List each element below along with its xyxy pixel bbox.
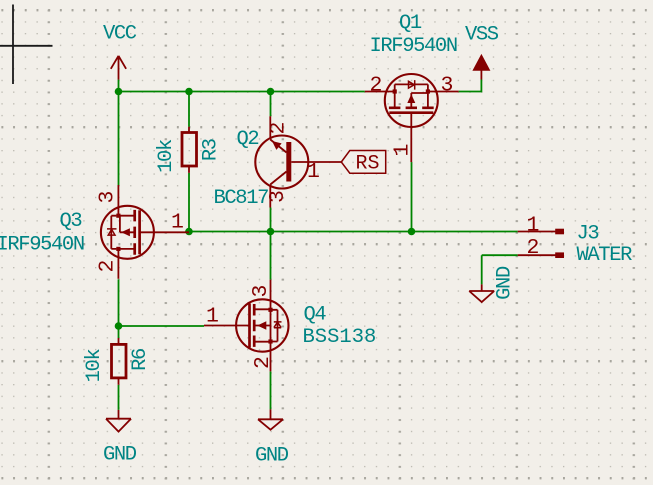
svg-text:IRF9540N: IRF9540N bbox=[0, 234, 84, 257]
svg-text:J3: J3 bbox=[577, 223, 599, 246]
transistor Q3 IRF9540N (gate right) bbox=[101, 185, 189, 279]
wire R6 bottom to GND bbox=[118, 172, 120, 174]
ground near J3 bbox=[469, 284, 494, 302]
wire R6 junction to Q4 gate bbox=[119, 325, 205, 327]
wire R3 bottom to mid net bbox=[188, 173, 190, 232]
svg-text:Q2: Q2 bbox=[237, 128, 259, 151]
transistor Q4 BSS138 (gate left, N-channel) bbox=[204, 280, 289, 372]
wire R3 top bbox=[188, 92, 190, 127]
transistor Q1 IRF9540N (gate down) bbox=[365, 74, 459, 162]
power VSS bbox=[474, 56, 489, 80]
wire Q2 collector to mid net bbox=[270, 208, 272, 232]
connector J3 pin 1 bbox=[518, 229, 564, 235]
junction mid net at Q2 column bbox=[267, 228, 275, 236]
svg-text:10k: 10k bbox=[83, 349, 106, 383]
junction VCC rail at R3 column bbox=[185, 88, 193, 96]
svg-text:10k: 10k bbox=[155, 139, 178, 173]
ground below R6 bbox=[106, 410, 131, 432]
svg-text:1: 1 bbox=[171, 211, 184, 235]
wire mid net to Q4 drain bbox=[270, 232, 272, 280]
svg-text:Q3: Q3 bbox=[60, 210, 82, 233]
wire VCC rail bbox=[119, 91, 365, 93]
svg-text:R3: R3 bbox=[200, 139, 223, 161]
wire junction to R6 top bbox=[118, 326, 120, 338]
svg-text:VSS: VSS bbox=[465, 24, 499, 47]
global label RS bbox=[341, 151, 385, 176]
wire J3 pin2 to GND corner bbox=[482, 255, 518, 284]
wire Q3 source to R6 junction bbox=[118, 279, 120, 326]
wire mid net horizontal bbox=[185, 231, 517, 233]
resistor R6 bbox=[112, 338, 127, 385]
power VCC bbox=[111, 56, 126, 80]
junction mid net at Q1 gate bbox=[408, 228, 416, 236]
svg-text:IRF9540N: IRF9540N bbox=[370, 35, 457, 58]
svg-text:2: 2 bbox=[96, 260, 120, 273]
junction mid net at R3 column bbox=[185, 228, 193, 236]
svg-text:GND: GND bbox=[255, 445, 289, 468]
wire VCC stem lower bbox=[118, 80, 120, 92]
wire Q1 gate to mid net bbox=[411, 162, 413, 231]
svg-text:3: 3 bbox=[249, 285, 273, 298]
svg-text:GND: GND bbox=[103, 444, 137, 467]
sheet origin marker bbox=[0, 5, 53, 85]
svg-text:3: 3 bbox=[266, 190, 290, 203]
junction R6 top bbox=[115, 322, 123, 330]
svg-text:2: 2 bbox=[266, 122, 290, 135]
svg-text:RS: RS bbox=[356, 153, 380, 176]
connector J3 pin 2 bbox=[518, 252, 564, 258]
svg-text:1: 1 bbox=[527, 214, 540, 238]
svg-text:2: 2 bbox=[370, 74, 383, 98]
junction VCC rail at Q3 column bbox=[115, 88, 123, 96]
svg-text:2: 2 bbox=[527, 236, 540, 260]
svg-text:WATER: WATER bbox=[577, 244, 633, 267]
svg-text:1: 1 bbox=[307, 160, 320, 184]
svg-text:3: 3 bbox=[441, 74, 454, 98]
transistor Q2 BC817 (NPN, base right) bbox=[255, 116, 341, 207]
wire Q1 drain to VSS corner bbox=[459, 80, 482, 92]
svg-text:BSS138: BSS138 bbox=[303, 326, 377, 349]
wire Q4 source to GND bbox=[270, 371, 272, 409]
ground below Q4 bbox=[258, 409, 283, 429]
wire VCC column to Q3 bbox=[118, 92, 120, 186]
svg-text:2: 2 bbox=[251, 356, 275, 369]
svg-text:VCC: VCC bbox=[103, 23, 137, 46]
svg-text:3: 3 bbox=[96, 191, 120, 204]
svg-text:Q1: Q1 bbox=[399, 12, 422, 35]
svg-text:GND: GND bbox=[494, 266, 517, 300]
svg-text:R6: R6 bbox=[129, 349, 152, 371]
resistor R3 bbox=[182, 127, 197, 173]
junction VCC rail at Q2 column bbox=[267, 88, 275, 96]
svg-text:Q4: Q4 bbox=[304, 304, 327, 327]
svg-text:1: 1 bbox=[206, 305, 219, 329]
svg-text:1: 1 bbox=[391, 144, 415, 157]
svg-text:BC817: BC817 bbox=[214, 187, 269, 210]
wire Q2 emitter to rail bbox=[270, 92, 272, 117]
